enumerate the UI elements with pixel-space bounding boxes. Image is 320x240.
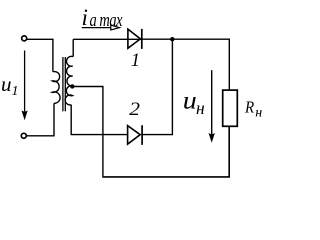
current arrow i_a (open head) <box>82 27 111 29</box>
wire center tap to bottom corner <box>72 87 103 177</box>
wire secondary top lead <box>72 39 74 56</box>
svg-text:1: 1 <box>131 50 140 71</box>
wire bottom rail up to resistor bottom <box>102 126 229 176</box>
svg-text:u: u <box>183 86 197 114</box>
wire top-left terminal to primary top <box>27 39 53 71</box>
svg-text:1: 1 <box>12 84 19 99</box>
u1 voltage arrow <box>24 51 26 112</box>
wire junction down to diode 2 output <box>142 39 172 134</box>
svg-text:н: н <box>196 98 205 118</box>
secondary winding L2 <box>65 56 73 105</box>
wire diode 1 to top-right corner, down to resistor <box>142 39 230 90</box>
svg-text:R: R <box>244 98 254 116</box>
wire top rail (secondary top to diode 1) <box>73 38 142 40</box>
svg-text:2: 2 <box>129 99 140 120</box>
primary winding L1 <box>52 72 60 104</box>
diode 1 (VD1) <box>128 29 140 48</box>
wire secondary bottom lead to diode 2 <box>71 105 128 135</box>
transformer core <box>62 57 64 111</box>
svg-text:н: н <box>255 105 262 120</box>
svg-text:i: i <box>82 5 88 30</box>
center tap junction dot <box>70 84 74 88</box>
diode 2 (VD2) <box>128 126 141 145</box>
svg-text:u: u <box>1 72 12 96</box>
resistor R_n <box>223 90 238 126</box>
node junction dot <box>170 37 174 41</box>
wire primary bottom to bottom-left terminal <box>27 103 54 136</box>
terminal (top-left input) <box>22 36 27 41</box>
terminal (bottom-left input) <box>21 133 26 138</box>
u_n voltage arrow <box>211 70 213 134</box>
